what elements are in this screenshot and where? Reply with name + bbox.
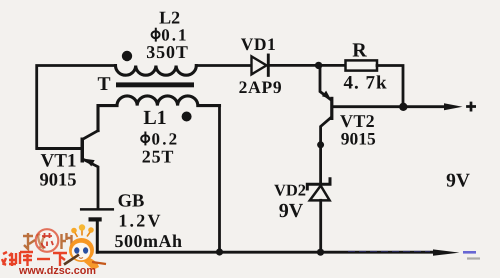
transistor VT2 emitter wire <box>320 67 331 100</box>
node B junction dot (R/VT2b/output) <box>399 103 407 111</box>
svg-text:4. 7k: 4. 7k <box>343 73 387 94</box>
transistor VT2 base bar <box>330 97 333 120</box>
junction dot on VD2 wire <box>317 141 324 148</box>
bottom rail <box>97 251 434 254</box>
watermark mascot face <box>72 243 90 261</box>
svg-text:25T: 25T <box>142 146 174 166</box>
battery GB long plate <box>81 208 113 211</box>
svg-text:9015: 9015 <box>40 171 77 191</box>
wire: VD1 to R <box>268 64 345 67</box>
node A junction dot (VD1/R/VT2e) <box>315 62 322 69</box>
transistor VT2 emitter arrow (PNP) <box>322 91 331 99</box>
watermark mascot pen <box>64 255 79 265</box>
transformer T core <box>116 82 194 87</box>
junction dot bottom rail at L1 <box>216 248 223 255</box>
plus sign <box>466 102 476 112</box>
watermark mascot head <box>69 238 94 262</box>
wire: L2 to VD1 <box>196 64 250 67</box>
diode VD1 cathode bar <box>267 55 270 75</box>
维 <box>2 252 16 266</box>
phase dot L1 <box>182 112 192 122</box>
battery GB negative lead <box>96 222 99 253</box>
svg-text:VD2: VD2 <box>274 180 306 199</box>
resistor R body <box>346 60 378 70</box>
svg-text:9015: 9015 <box>341 129 376 149</box>
watermark: stamp char 片 <box>62 233 72 249</box>
svg-text:500mAh: 500mAh <box>114 231 182 251</box>
transistor VT1 emitter diagonal + vertical to battery <box>84 160 98 208</box>
watermark mascot antenna balls <box>71 228 77 234</box>
output - arrowhead <box>433 249 460 255</box>
svg-text:350T: 350T <box>146 42 189 62</box>
output + arrowhead <box>444 103 463 110</box>
inductor L1 winding with left/right leads <box>98 96 220 131</box>
wire: R right to corner down to node B <box>377 66 403 107</box>
junction dot bottom rail at VD2 <box>317 249 324 256</box>
transistor VT1 collector diagonal <box>84 131 98 139</box>
svg-text:1.2V: 1.2V <box>118 211 162 231</box>
svg-text:GB: GB <box>118 192 145 212</box>
wire: VT2 collector to zener VD2 <box>319 146 322 183</box>
wire: L1 right end down to bottom rail <box>218 106 221 253</box>
svg-text:9V: 9V <box>279 200 304 222</box>
watermark text 维库一下 (drawn strokes) <box>1 250 69 268</box>
下 <box>53 253 67 266</box>
label ф0.1 <box>152 31 160 38</box>
一 <box>37 258 50 260</box>
diode VD1 triangle <box>252 56 267 74</box>
库 <box>20 252 33 266</box>
transistor VT2 collector wire <box>321 118 331 143</box>
svg-text:L2: L2 <box>159 8 180 28</box>
zener VD2 cathode bar <box>307 179 330 189</box>
inductor L2 winding <box>116 66 197 76</box>
watermark mascot eyes <box>74 247 79 253</box>
transistor VT1 base bar <box>81 138 85 163</box>
svg-text:L1: L1 <box>143 107 166 129</box>
transistor VT1 emitter arrow (PNP) <box>85 159 95 167</box>
watermark url www.dzsc.com <box>19 265 99 277</box>
svg-text:T: T <box>97 74 110 95</box>
svg-text:9V: 9V <box>446 170 470 191</box>
svg-text:VT1: VT1 <box>41 151 77 172</box>
watermark: stamp char 找 <box>23 233 44 249</box>
transistor VT1 base wire <box>37 147 81 150</box>
svg-text:2AP9: 2AP9 <box>239 77 283 97</box>
wire: VT2 base to output + arrow line <box>333 105 446 108</box>
svg-text:VD1: VD1 <box>241 34 277 54</box>
blue artifact dashes near bottom arrow <box>348 250 430 252</box>
watermark mascot antennae <box>75 230 91 238</box>
watermark mascot body/arm <box>84 258 99 270</box>
zener VD2 triangle <box>310 186 330 201</box>
battery GB short plate <box>91 217 100 221</box>
wire: left vertical + top rail to L2 <box>37 66 116 149</box>
phase dot L2 <box>122 51 132 61</box>
label ф0.2 <box>141 135 149 142</box>
wire: VD2 anode down to bottom rail <box>319 200 322 252</box>
svg-text:R: R <box>352 40 367 62</box>
watermark: red circle with 芯 <box>36 229 59 252</box>
